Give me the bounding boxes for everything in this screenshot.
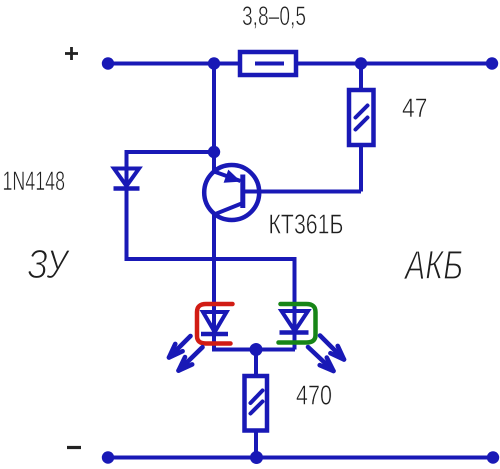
svg-text:1N4148: 1N4148 <box>3 166 66 196</box>
svg-text:ЗУ: ЗУ <box>28 241 71 287</box>
svg-text:КТ361Б: КТ361Б <box>269 209 344 240</box>
svg-text:АКБ: АКБ <box>403 242 463 288</box>
svg-text:3,8–0,5: 3,8–0,5 <box>242 1 306 31</box>
svg-text:47: 47 <box>402 93 428 123</box>
svg-text:470: 470 <box>296 380 332 411</box>
